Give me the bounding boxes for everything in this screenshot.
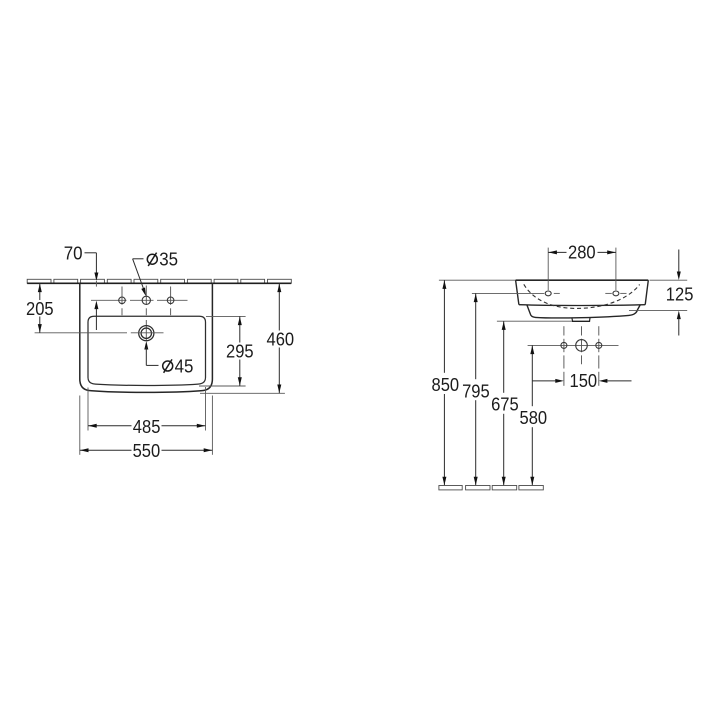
tap hole center (Ø35) [142, 296, 150, 304]
anchor centerline left vertical [563, 326, 565, 386]
svg-text:795: 795 [462, 380, 490, 401]
svg-text:125: 125 [666, 283, 694, 304]
dim 460 vertical [200, 283, 285, 393]
anchor hole left circle [561, 342, 567, 348]
dim 580 vertical [528, 345, 619, 485]
tap hole left centerline vertical [121, 287, 123, 316]
wall tiles row (plan view) [27, 279, 291, 283]
drain box (elevation) [572, 317, 590, 321]
drain hole Ø45 (plan) inner circle [141, 328, 151, 338]
dim 150 horizontal [532, 379, 631, 383]
tap hole right [167, 297, 174, 304]
fixing hole left (elevation) [545, 291, 560, 296]
basin rim left side [516, 280, 519, 305]
anchor centerline center vertical [581, 326, 583, 364]
basin lower shell (elevation) [527, 305, 640, 318]
dim 850 vertical [439, 280, 516, 485]
svg-text:850: 850 [432, 374, 460, 395]
dim 205 vertical [35, 283, 164, 332]
basin rim bottom edge [519, 304, 645, 307]
floor tiles (elevation) [439, 486, 543, 490]
label Ø35 [147, 249, 178, 270]
svg-text:295: 295 [226, 340, 254, 361]
leader Ø45 [144, 341, 158, 365]
anchor hole right circle [596, 342, 602, 348]
drain centerline vertical [145, 320, 147, 341]
tap-hole row horizontal centerline [91, 299, 188, 301]
svg-text:580: 580 [520, 407, 548, 428]
dim 70 leader and arrows [85, 253, 99, 330]
dim 675 vertical [497, 321, 572, 485]
svg-text:35: 35 [159, 249, 178, 270]
svg-text:550: 550 [133, 440, 161, 461]
dim 125 vertical [629, 250, 687, 336]
basin outer outline (plan) [80, 283, 213, 392]
svg-text:675: 675 [491, 394, 519, 415]
dim 550 horizontal [80, 396, 213, 455]
dim 485 horizontal [88, 387, 206, 431]
svg-text:205: 205 [26, 298, 54, 319]
dim 280 horizontal [548, 248, 616, 291]
fixing hole right (elevation) [605, 291, 626, 296]
drain hole Ø45 (plan) outer ring [139, 326, 154, 341]
svg-text:460: 460 [267, 328, 295, 349]
tap hole right centerline vertical [170, 287, 172, 316]
basin top edge (elevation) [516, 279, 649, 281]
supply hole center circle [576, 340, 588, 352]
label Ø45 [163, 356, 194, 377]
bowl hidden contour (dashed) [524, 284, 640, 308]
svg-text:485: 485 [133, 416, 161, 437]
svg-text:45: 45 [175, 356, 194, 377]
svg-text:280: 280 [568, 241, 596, 262]
anchor centerline right vertical [598, 326, 600, 386]
svg-text:150: 150 [570, 370, 598, 391]
dim 795 vertical [472, 293, 544, 485]
basin inner bowl outline (plan) [88, 316, 206, 385]
tap hole left [119, 297, 126, 304]
wall face line (plan view) [27, 282, 291, 284]
leader Ø35 [133, 259, 146, 296]
dim 295 vertical [199, 316, 246, 386]
svg-text:70: 70 [64, 242, 83, 263]
basin rim right side [645, 280, 648, 305]
tap hole center centerline vertical [145, 286, 147, 316]
